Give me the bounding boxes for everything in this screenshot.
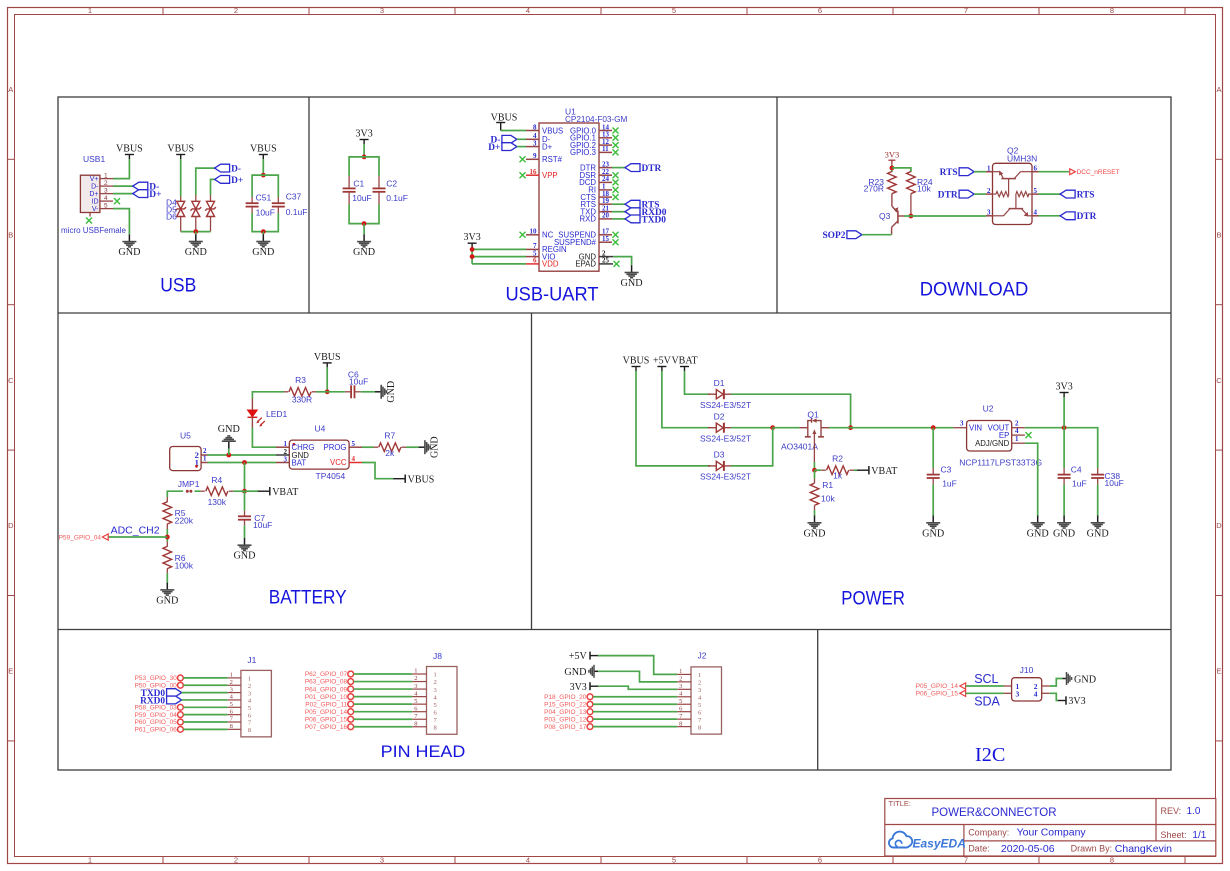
svg-text:D+: D+ [231, 176, 243, 186]
svg-text:1: 1 [698, 672, 701, 679]
junction R1 R2 [812, 468, 817, 473]
wire VBUS to USB1 pin1 [113, 159, 129, 179]
svg-text:3: 3 [414, 683, 417, 690]
junction BAT node [242, 460, 247, 465]
svg-text:2: 2 [414, 675, 417, 682]
svg-text:C2: C2 [386, 178, 397, 188]
svg-text:U5: U5 [180, 430, 191, 440]
wire JMP1 row left [167, 491, 183, 497]
charger U4 TP4054 body [289, 423, 349, 481]
wire RTS to Q2 pin1 [974, 171, 986, 173]
svg-text:9: 9 [533, 152, 537, 160]
svg-text:AO3401A: AO3401A [781, 442, 818, 452]
svg-text:PROG: PROG [324, 443, 347, 452]
svg-text:5: 5 [672, 6, 676, 15]
wire VBAT node to flag [245, 490, 259, 492]
net port SOP2 [822, 231, 861, 241]
J8 pin 3 P64_GPIO_09 [305, 683, 437, 694]
svg-text:EPAD: EPAD [575, 260, 596, 269]
U1 EPAD pin 25 [575, 257, 619, 269]
J2 pin 3 [677, 683, 701, 694]
junction VBAT row [242, 489, 247, 494]
connector J2 body [691, 651, 722, 735]
svg-text:B: B [1216, 230, 1221, 239]
svg-text:6: 6 [818, 6, 822, 15]
ground at U1 [621, 265, 643, 289]
USB1 shell pin no-connect [86, 213, 92, 224]
svg-text:2: 2 [698, 680, 701, 687]
svg-text:R3: R3 [295, 375, 306, 385]
wire cap bottom bus [252, 213, 278, 232]
Q2 internal base resistor upper [993, 192, 1010, 197]
svg-text:GND: GND [156, 595, 178, 606]
no-connect VPP [520, 172, 526, 178]
svg-text:P04_GPIO_13: P04_GPIO_13 [544, 709, 587, 716]
title block frame [885, 799, 1216, 857]
connector USB1 micro USB female [61, 154, 126, 235]
svg-text:130k: 130k [208, 497, 227, 507]
svg-text:16: 16 [530, 168, 538, 176]
diode D1 SS24-E3/52T [700, 378, 751, 410]
svg-text:P07_GPIO_16: P07_GPIO_16 [305, 724, 348, 731]
wire Q3 base to Q2 pin3 [904, 215, 986, 217]
svg-text:P53_GPIO_30: P53_GPIO_30 [135, 675, 178, 682]
svg-text:VBUS: VBUS [408, 474, 435, 485]
svg-text:D-: D- [91, 184, 99, 191]
junction R3 C6 [325, 389, 330, 394]
diode D3 SS24-E3/52T [700, 450, 751, 482]
svg-text:SDA: SDA [974, 694, 1000, 708]
svg-text:ChangKevin: ChangKevin [1115, 843, 1172, 855]
svg-text:P64_GPIO_09: P64_GPIO_09 [305, 686, 348, 693]
net port D+ at diodes [215, 176, 244, 186]
svg-text:R7: R7 [384, 430, 395, 440]
svg-text:8: 8 [1110, 6, 1114, 15]
svg-text:4: 4 [104, 195, 108, 202]
svg-text:3V3: 3V3 [1055, 382, 1072, 393]
wire VBUS to U1 pin8 [501, 130, 526, 132]
jumper JMP1 [178, 479, 200, 493]
resistor R24 10k [907, 172, 933, 194]
net flag +5V at power [653, 356, 672, 372]
svg-text:TP4054: TP4054 [316, 471, 346, 481]
svg-text:EasyEDA: EasyEDA [913, 837, 966, 851]
ground at USB1 [118, 234, 140, 258]
svg-text:GND: GND [118, 247, 140, 258]
svg-text:GND: GND [621, 278, 643, 289]
wire BAT node down to VBAT row [244, 463, 246, 492]
svg-text:10k: 10k [917, 183, 931, 193]
svg-text:NCP1117LPST33T3G: NCP1117LPST33T3G [959, 458, 1042, 468]
svg-text:1/1: 1/1 [1192, 830, 1206, 841]
junction C1 top [362, 155, 367, 160]
svg-text:D+: D+ [488, 143, 500, 153]
svg-text:GND: GND [1087, 528, 1109, 539]
svg-text:Sheet:: Sheet: [1161, 830, 1187, 840]
wire JMP1 to R4 [195, 490, 201, 492]
svg-text:VBUS: VBUS [623, 356, 650, 367]
svg-text:C4: C4 [1071, 465, 1082, 475]
wire R2 to VBAT flag [854, 469, 857, 471]
wire D+ port to pin3 [517, 146, 526, 148]
svg-text:2: 2 [104, 180, 108, 187]
svg-text:P63_GPIO_08: P63_GPIO_08 [305, 679, 348, 686]
svg-text:20: 20 [602, 212, 610, 220]
svg-text:A: A [1216, 85, 1221, 94]
junction Q3 base [909, 214, 914, 219]
svg-text:GND: GND [803, 528, 825, 539]
svg-text:ADC_CH2: ADC_CH2 [111, 524, 160, 536]
wire D3 up to junction [731, 428, 773, 466]
capacitor C6 10uF [345, 370, 368, 399]
wire to R24 top [892, 168, 911, 172]
net port D- at USB1 [133, 182, 159, 192]
svg-text:1k: 1k [833, 471, 843, 481]
svg-text:C3: C3 [941, 465, 952, 475]
J8 pin 5 P02_GPIO_11 [305, 698, 436, 709]
power flag VBAT at R2 [857, 466, 898, 477]
J2 pin 7 P03_GPIO_12 [544, 713, 702, 724]
J1 pin 7 P60_GPIO_05 [135, 716, 252, 727]
svg-text:Q3: Q3 [879, 211, 891, 221]
svg-text:RTS: RTS [1077, 191, 1095, 201]
wire VBUS down to R3 node [326, 367, 328, 391]
svg-text:DOWNLOAD: DOWNLOAD [920, 279, 1029, 301]
U1 GND pin 2 [579, 249, 613, 261]
svg-text:D+: D+ [542, 142, 553, 151]
U2 pin2 VOUT [988, 420, 1025, 433]
svg-text:GND: GND [353, 247, 375, 258]
ground under R1 [803, 516, 825, 540]
svg-text:J1: J1 [247, 655, 256, 665]
net port DCC_nRESET [1070, 169, 1120, 176]
U1 right pins [554, 123, 619, 247]
svg-text:D1: D1 [714, 378, 725, 388]
junction Q1 right [848, 425, 853, 430]
svg-text:RXD: RXD [580, 215, 597, 224]
wire R5 to ADC node [166, 529, 168, 542]
junction at C3 [931, 425, 936, 430]
title block Date [968, 843, 1172, 855]
svg-text:100k: 100k [175, 561, 194, 571]
wire RTS pin to port [612, 203, 625, 205]
svg-text:1: 1 [88, 6, 92, 15]
svg-text:VPP: VPP [542, 171, 558, 180]
J1 pin 6 P59_GPIO_04 [135, 708, 252, 719]
svg-text:U2: U2 [983, 404, 994, 414]
label SCL [974, 672, 998, 686]
wire R3 node to C6 [327, 391, 345, 393]
svg-text:RTS: RTS [940, 168, 958, 178]
svg-text:P62_GPIO_07: P62_GPIO_07 [305, 671, 348, 678]
J1 pin 2 P50_GPIO_00 [135, 679, 252, 690]
svg-text:4: 4 [526, 6, 530, 15]
capacitor C38 10uF [1091, 468, 1124, 488]
wire D2 to junction [731, 427, 773, 429]
resistor R7 2k [374, 430, 407, 458]
title block Company [968, 827, 1086, 839]
svg-text:1: 1 [230, 672, 233, 679]
wire C4 to GND [1063, 485, 1065, 516]
svg-text:VBAT: VBAT [871, 466, 897, 477]
net flag VBUS at diodes [167, 144, 194, 160]
svg-text:2k: 2k [385, 448, 395, 458]
svg-text:3: 3 [1016, 690, 1020, 699]
svg-text:USB-UART: USB-UART [506, 284, 599, 306]
wire ADC node to port [108, 536, 167, 538]
J2 pin 2 [677, 676, 701, 687]
resistor R6 100k [163, 542, 194, 574]
diode D5 TVS [190, 195, 201, 232]
section title DOWNLOAD [920, 279, 1029, 301]
svg-text:3V3: 3V3 [1068, 696, 1085, 707]
svg-text:ID: ID [92, 199, 99, 206]
svg-text:D-: D- [231, 165, 241, 175]
svg-text:3: 3 [230, 686, 233, 693]
power flag VBAT [258, 487, 299, 498]
wire Q1 to U2 VIN [829, 427, 953, 429]
wire up to GND flag [228, 449, 230, 456]
U4 left pins CHRG GND BAT [276, 440, 314, 467]
J8 pin 2 P63_GPIO_08 [305, 675, 437, 686]
wire C3 down [932, 428, 934, 468]
net flag VBUS at USB1 [116, 144, 143, 160]
junction C1 bottom [362, 221, 367, 226]
svg-text:D6: D6 [166, 211, 177, 221]
svg-text:D3: D3 [714, 450, 725, 460]
svg-text:UMH3N: UMH3N [1007, 153, 1037, 163]
svg-text:10k: 10k [821, 494, 835, 504]
net flag 3V3 at U1 [463, 232, 480, 248]
wire D5 to D- port [196, 168, 215, 195]
wire VOUT rail [1025, 428, 1098, 468]
svg-text:GND: GND [1027, 528, 1049, 539]
wire USB1 pin3 to D+ port [113, 193, 133, 195]
svg-text:3: 3 [434, 687, 437, 694]
net port RTS input [940, 168, 974, 178]
J2 pin 8 P08_GPIO_17 [544, 720, 701, 731]
svg-text:3: 3 [104, 187, 108, 194]
svg-text:1: 1 [88, 856, 92, 865]
svg-text:3V3: 3V3 [463, 232, 480, 243]
J10 pin stubs [1004, 686, 1050, 693]
wire junction to Q1 [773, 427, 800, 429]
svg-text:P05_GPIO_14: P05_GPIO_14 [916, 683, 959, 690]
svg-text:3: 3 [248, 690, 251, 697]
wire VBAT node down to C7 [244, 491, 246, 511]
svg-text:BATTERY: BATTERY [269, 587, 347, 609]
svg-text:2: 2 [248, 683, 251, 690]
svg-text:11: 11 [602, 145, 609, 153]
svg-text:5: 5 [104, 202, 108, 209]
svg-text:10uF: 10uF [349, 377, 368, 387]
svg-text:RST#: RST# [542, 155, 563, 164]
resistor R4 130k [200, 475, 233, 507]
svg-text:5: 5 [434, 702, 437, 709]
svg-text:GPIO.3: GPIO.3 [570, 148, 596, 157]
svg-text:SCL: SCL [974, 672, 998, 686]
wire ADJ to GND [1025, 443, 1038, 515]
capacitor C4 1uF [1058, 465, 1087, 489]
svg-text:330R: 330R [292, 394, 312, 404]
svg-text:P03_GPIO_12: P03_GPIO_12 [544, 716, 587, 723]
svg-text:3: 3 [698, 687, 701, 694]
svg-text:4: 4 [352, 455, 356, 463]
net port DTR output [1060, 212, 1097, 222]
resistor R23 270R [864, 172, 897, 194]
svg-text:TXD0: TXD0 [642, 215, 667, 225]
svg-text:1: 1 [434, 672, 437, 679]
junction 3V3 node [890, 166, 895, 171]
svg-text:E: E [1216, 667, 1221, 676]
J8 pin 7 P06_GPIO_15 [305, 713, 438, 724]
junction at cap bottom bus [261, 229, 266, 234]
svg-text:POWER: POWER [841, 588, 905, 610]
wire LED to R3 [252, 392, 284, 399]
wire U5 pin2 to U4 GND [208, 454, 277, 456]
svg-text:1: 1 [104, 172, 108, 179]
net port DTR input [938, 190, 974, 200]
wire SOP2 to Q3 emitter [862, 234, 892, 236]
net flag 3V3 at U2 [1055, 382, 1072, 398]
svg-text:I2C: I2C [975, 744, 1005, 766]
no-connect NC pin10 [520, 232, 526, 238]
svg-text:3: 3 [679, 683, 682, 690]
svg-text:Date:: Date: [968, 844, 990, 854]
J1 pin 5 P58_GPIO_03 [135, 701, 252, 712]
svg-text:2: 2 [230, 679, 233, 686]
svg-text:+5V: +5V [569, 651, 588, 662]
svg-text:3V3: 3V3 [570, 682, 587, 693]
section title USB-UART [506, 284, 599, 306]
svg-text:25: 25 [602, 257, 610, 265]
svg-text:SS24-E3/52T: SS24-E3/52T [700, 434, 751, 444]
svg-text:5: 5 [698, 702, 701, 709]
ground right of R7 [419, 436, 441, 458]
wire to GND under C1 [363, 224, 365, 235]
wire DTR to Q2 pin2 [974, 193, 986, 195]
wire GND to J2 pin2 [598, 671, 677, 682]
svg-text:1: 1 [679, 668, 682, 675]
svg-text:5: 5 [672, 856, 676, 865]
svg-text:VBUS: VBUS [250, 144, 277, 155]
net port RTS at U1 [625, 200, 659, 210]
resistor R1 10k [810, 470, 835, 510]
svg-text:SOP2: SOP2 [822, 231, 845, 241]
diode D2 SS24-E3/52T [700, 412, 751, 444]
wire DTR pin to port [612, 167, 625, 169]
ground under C1C2 [353, 234, 375, 258]
wire diode bottom bus [181, 231, 211, 233]
wire R7 to GND [406, 446, 419, 448]
svg-text:VBUS: VBUS [167, 144, 194, 155]
svg-text:A: A [8, 85, 13, 94]
svg-text:6: 6 [533, 257, 537, 265]
svg-text:P58_GPIO_03: P58_GPIO_03 [135, 705, 178, 712]
wire R6 to GND [166, 573, 168, 582]
net port TXD0 at U1 [625, 215, 666, 225]
junction at cap top bus [261, 173, 266, 178]
ground under C3 [922, 516, 944, 540]
svg-text:P59_GPIO_04: P59_GPIO_04 [135, 712, 178, 719]
svg-text:V+: V+ [90, 176, 99, 183]
svg-text:10uF: 10uF [1105, 478, 1124, 488]
svg-text:Q1: Q1 [807, 409, 819, 419]
J8 pin 8 P07_GPIO_16 [305, 720, 437, 731]
wire U5 pin1 to U4 BAT [208, 462, 277, 464]
svg-text:0.1uF: 0.1uF [286, 207, 308, 217]
svg-text:8: 8 [679, 720, 682, 727]
svg-text:DTR: DTR [1077, 212, 1097, 222]
svg-text:10uF: 10uF [256, 208, 275, 218]
svg-text:4: 4 [1015, 427, 1019, 435]
wire D1 to Q1 node [731, 394, 851, 428]
wire VBUS down to D3 [636, 371, 710, 466]
Q2 internal transistor upper [993, 171, 1033, 195]
connector J8 body [427, 651, 458, 734]
wire RXD pin to port [612, 218, 625, 220]
svg-text:3V3: 3V3 [355, 129, 372, 140]
wire Q2 pin4 to DTR port [1039, 215, 1061, 217]
svg-text:10uF: 10uF [253, 520, 272, 530]
svg-text:P08_GPIO_17: P08_GPIO_17 [544, 724, 587, 731]
ground under ADJ [1027, 516, 1049, 540]
svg-text:V-: V- [92, 206, 99, 213]
U2 pin4 EP [999, 427, 1032, 440]
transistor Q1 AO3401A [781, 409, 829, 451]
net port RTS output [1060, 190, 1094, 200]
svg-text:VBAT: VBAT [671, 356, 697, 367]
wire LED1 to U4 CHRG [252, 428, 276, 448]
svg-text:micro USBFemale: micro USBFemale [61, 226, 126, 235]
svg-text:8: 8 [533, 123, 537, 131]
J8 pin 6 P05_GPIO_14 [305, 705, 438, 716]
J1 pin 3 port TXD0 [141, 686, 252, 699]
wire D- port to pin4 [517, 138, 526, 140]
wire C38 to GND [1097, 485, 1099, 516]
svg-text:8: 8 [230, 723, 233, 730]
title block name [932, 807, 1057, 819]
svg-text:VBAT: VBAT [272, 487, 298, 498]
wire 3V3 down [1063, 397, 1065, 428]
led LED1 [248, 399, 288, 428]
svg-text:1.0: 1.0 [1187, 806, 1201, 817]
svg-text:PIN HEAD: PIN HEAD [381, 742, 466, 761]
wire 3V3 to C1 bus [363, 144, 365, 157]
wire VBUS to cap bus [262, 159, 264, 175]
svg-text:GND: GND [1074, 674, 1096, 685]
ground at J10 [1063, 672, 1097, 685]
J8 pin 1 P62_GPIO_07 [305, 668, 437, 679]
svg-text:JMP1: JMP1 [178, 479, 200, 489]
wire 3V3 to J2 pin3 [598, 686, 677, 689]
svg-text:SS24-E3/52T: SS24-E3/52T [700, 400, 751, 410]
wire R1 to GND [814, 510, 816, 516]
Q2 internal transistor lower [993, 200, 1033, 217]
net flag VBUS at U1 [491, 113, 518, 131]
svg-text:C1: C1 [353, 178, 364, 188]
svg-text:POWER&CONNECTOR: POWER&CONNECTOR [932, 807, 1057, 819]
svg-text:7: 7 [964, 856, 968, 865]
U4 right pin VCC [330, 455, 362, 467]
junction at D5 bottom [193, 229, 198, 234]
net port D- to U1 [490, 135, 516, 145]
svg-text:VIN: VIN [969, 423, 982, 432]
svg-text:J10: J10 [1020, 665, 1034, 675]
svg-text:REV:: REV: [1161, 806, 1182, 816]
svg-text:P02_GPIO_11: P02_GPIO_11 [305, 701, 347, 708]
svg-text:220k: 220k [175, 516, 194, 526]
